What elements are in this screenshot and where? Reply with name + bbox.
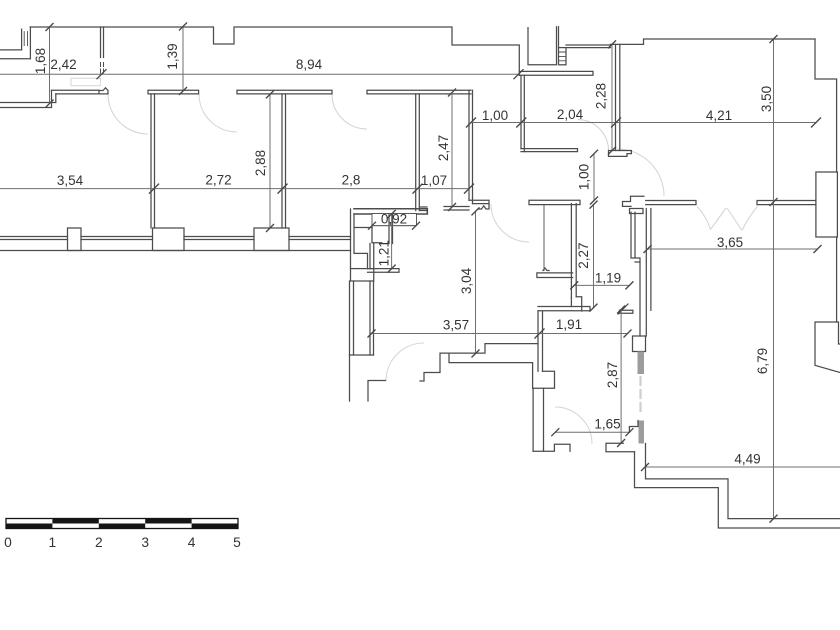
dim 4,49 line bbox=[645, 466, 840, 468]
dim 3,50 6,79 vertical bbox=[773, 39, 775, 519]
svg-text:1,91: 1,91 bbox=[556, 317, 582, 332]
svg-text:0: 0 bbox=[4, 535, 12, 550]
wall right outer top bbox=[815, 39, 837, 172]
svg-text:4,21: 4,21 bbox=[706, 108, 732, 123]
wall hall east inner face bbox=[631, 212, 640, 336]
wall corridor west top bbox=[351, 209, 373, 269]
ticks 2,27 bbox=[590, 201, 598, 312]
ticks 1,19 bbox=[570, 281, 633, 289]
wall right angled corner bbox=[815, 322, 840, 373]
wall partition room1-room2 bbox=[151, 94, 155, 228]
wall bottom notch bbox=[533, 444, 570, 451]
dim 0,92 line bbox=[372, 225, 416, 227]
wall niche right pair bbox=[389, 214, 393, 244]
dim 1,65 line bbox=[555, 431, 629, 433]
svg-text:1,21: 1,21 bbox=[377, 240, 392, 266]
cap bump glass partition bbox=[543, 268, 549, 271]
wall corridor bottom faces bbox=[350, 355, 386, 401]
svg-text:6,79: 6,79 bbox=[755, 348, 770, 374]
dim 2,87 vertical bbox=[620, 310, 622, 444]
svg-text:3: 3 bbox=[141, 535, 149, 550]
double door arc left bbox=[697, 207, 711, 230]
dim 2,28 vertical bbox=[611, 44, 613, 150]
wall partition band A with hinge bump bbox=[52, 90, 100, 94]
svg-text:3,54: 3,54 bbox=[57, 173, 84, 188]
door arc east big bbox=[617, 149, 664, 196]
door leaf dashes top-left bbox=[101, 63, 104, 74]
svg-text:5: 5 bbox=[233, 535, 241, 550]
tick 1,68 ends bbox=[46, 23, 54, 108]
window glazing bottom run4 bbox=[289, 237, 351, 240]
ticks 0,92 bbox=[368, 222, 420, 230]
scale bar bottom row black segments bbox=[6, 524, 52, 529]
door leaf rect top-left bbox=[71, 78, 101, 85]
door arc bottom opening bbox=[555, 407, 592, 444]
window glazing bottom run1 bbox=[0, 237, 68, 240]
wall top band right of shaft bbox=[566, 45, 611, 48]
dim chain line y74 bbox=[0, 73, 519, 75]
dim chain line y333 bbox=[372, 333, 628, 335]
svg-text:2,88: 2,88 bbox=[253, 150, 268, 176]
dim 1,19 line bbox=[574, 284, 629, 286]
ticks 1,21 bbox=[388, 210, 396, 273]
svg-text:4,49: 4,49 bbox=[734, 452, 760, 467]
dim 1,00 vertical small bbox=[593, 154, 595, 201]
ticks 3,04 bbox=[472, 207, 480, 357]
svg-text:2,87: 2,87 bbox=[605, 362, 620, 388]
wall corridor east upper bbox=[370, 244, 374, 269]
wall band under niche bbox=[368, 269, 400, 273]
dim 2,27 vertical bbox=[593, 205, 595, 308]
wall bottom left of stair bbox=[606, 443, 635, 451]
wall cap near 2,87 top bbox=[620, 310, 633, 313]
window east bbox=[816, 172, 838, 237]
scale bar top row black segments bbox=[52, 519, 98, 524]
svg-text:3,04: 3,04 bbox=[459, 267, 474, 294]
window glazing bottom run2 bbox=[81, 237, 153, 240]
ticks chain y122 bbox=[466, 118, 821, 128]
door jamb gray upper bbox=[638, 352, 645, 375]
svg-text:1,65: 1,65 bbox=[594, 417, 620, 432]
svg-text:0,92: 0,92 bbox=[381, 212, 407, 227]
ticks chain y333 bbox=[368, 329, 632, 339]
tick 1,39 ends bbox=[179, 23, 187, 96]
double door leaf right bbox=[727, 208, 742, 231]
svg-text:1,19: 1,19 bbox=[595, 271, 621, 286]
svg-text:4: 4 bbox=[188, 535, 196, 550]
door leaf light bbox=[639, 377, 641, 415]
label box 0,92 bbox=[372, 214, 417, 226]
wall partition room4 right bbox=[469, 90, 473, 203]
svg-text:2,47: 2,47 bbox=[436, 135, 451, 161]
wall stub left of vestibule door bbox=[420, 207, 427, 211]
tick 2,42/8,94 chain bbox=[97, 69, 524, 79]
pillar 3 bbox=[254, 228, 289, 251]
wall room5 bottom band bbox=[521, 149, 578, 152]
wall room5 west pair bbox=[521, 75, 524, 151]
wall staircase upper outline bbox=[420, 344, 538, 381]
window top-left bbox=[24, 32, 27, 46]
pillar 1 bbox=[68, 228, 82, 251]
door arc partition C bbox=[332, 94, 367, 129]
ticks 2,88 bbox=[266, 90, 274, 232]
ticks 2,28 bbox=[608, 40, 616, 154]
wall top-left corner bbox=[22, 27, 31, 59]
ticks chain y188 bbox=[149, 184, 474, 194]
svg-text:2,72: 2,72 bbox=[205, 173, 231, 188]
svg-text:2,28: 2,28 bbox=[594, 83, 609, 109]
wall hall east pair bbox=[645, 209, 647, 337]
wall hall NE corner jamb cluster bbox=[623, 196, 645, 206]
svg-text:1,00: 1,00 bbox=[577, 164, 592, 190]
wall door box step bbox=[633, 336, 646, 352]
dim chain line y188 bbox=[0, 188, 469, 190]
svg-text:1: 1 bbox=[49, 535, 57, 550]
wall step near 1,65 bbox=[629, 421, 638, 433]
wall niche left bbox=[372, 226, 382, 243]
door arc partition B bbox=[199, 94, 237, 132]
svg-text:3,50: 3,50 bbox=[759, 86, 774, 112]
wall hall bottom band bbox=[538, 307, 590, 311]
wall hall east main pair bbox=[571, 204, 576, 298]
door arc vestibule into hall bbox=[491, 204, 529, 242]
double door leaf left bbox=[711, 208, 727, 230]
wall inner stair line bbox=[449, 354, 533, 388]
wall partition band C bbox=[237, 90, 332, 94]
dim 2,88 vertical bbox=[269, 94, 271, 228]
dim 3,65 line bbox=[648, 248, 818, 250]
wall door jamb top-left pair bbox=[101, 27, 104, 58]
wall east band left of double door bbox=[646, 201, 696, 205]
ticks 1,00 small bbox=[590, 150, 598, 205]
svg-text:2,8: 2,8 bbox=[342, 173, 361, 188]
svg-text:2,04: 2,04 bbox=[557, 107, 584, 122]
wall staircase inner bbox=[635, 452, 840, 528]
door arc room1 top-left partition bbox=[108, 94, 148, 134]
wall top right run bbox=[611, 39, 816, 44]
ticks 3,50/6,79 bbox=[770, 35, 778, 523]
scale bar outline bbox=[6, 519, 238, 529]
wall hall inner top band bbox=[529, 200, 580, 204]
wall corridor west pair lower bbox=[350, 281, 354, 355]
dim 2,47 vertical bbox=[451, 93, 453, 208]
ticks 2,87 bbox=[617, 306, 625, 448]
dim 1,39 vertical bbox=[182, 27, 184, 92]
wall right outer below window bbox=[836, 237, 838, 322]
dim 1,21 vertical bbox=[391, 214, 393, 269]
wall stub right bbox=[444, 207, 469, 211]
svg-text:3,65: 3,65 bbox=[717, 235, 743, 250]
dim 3,04 vertical bbox=[475, 211, 477, 353]
svg-text:1,00: 1,00 bbox=[482, 108, 508, 123]
wall room5 east pair bbox=[616, 44, 620, 150]
wall partition room3-room4 bbox=[416, 94, 420, 211]
door jamb gray lower bbox=[639, 421, 645, 444]
wall hall top band bbox=[519, 71, 593, 75]
wall T-foot bbox=[609, 151, 632, 157]
wall 0,92 thick band bbox=[354, 209, 427, 214]
dim chain line y122 bbox=[471, 122, 816, 124]
svg-text:1,39: 1,39 bbox=[165, 43, 180, 69]
wall bottom sill line bbox=[0, 250, 351, 252]
wall partition room2-room3 bbox=[282, 94, 286, 228]
svg-text:2,27: 2,27 bbox=[576, 242, 591, 268]
ticks 2,47 bbox=[448, 89, 456, 212]
wall corridor east pair lower bbox=[370, 281, 374, 355]
svg-text:3,57: 3,57 bbox=[443, 318, 469, 333]
door arc staircase corridor bbox=[386, 343, 424, 381]
ticks 3,65 bbox=[644, 245, 822, 253]
wall vestibule door cap with bump bbox=[469, 200, 489, 203]
wall hall stub band bbox=[537, 273, 573, 278]
wall thin glass partition bbox=[543, 205, 545, 271]
wall room east west pair bbox=[650, 209, 652, 311]
tick 4,49 left bbox=[641, 463, 649, 471]
wall top exterior bbox=[30, 27, 519, 75]
svg-text:1,07: 1,07 bbox=[421, 173, 447, 188]
svg-text:8,94: 8,94 bbox=[296, 57, 323, 72]
window glazing bottom run3 bbox=[184, 237, 254, 240]
wall staircase outer bbox=[646, 444, 840, 519]
dim 1,68 vertical bbox=[49, 27, 51, 104]
wall partition band D bbox=[367, 90, 471, 94]
wall partition band B bbox=[148, 90, 199, 94]
door tick at cap bbox=[618, 304, 628, 314]
wall jog right at bottom bbox=[533, 371, 555, 388]
door arc room5 bbox=[578, 120, 609, 151]
double door arc right bbox=[742, 207, 758, 231]
svg-text:1,68: 1,68 bbox=[33, 48, 48, 74]
wall west pair below bbox=[533, 388, 543, 451]
wall hall east jog bbox=[571, 297, 581, 311]
wall east band right of double door bbox=[757, 201, 815, 205]
ticks 1,65 bbox=[551, 428, 633, 436]
svg-text:2: 2 bbox=[95, 535, 103, 550]
pillar corridor bbox=[351, 269, 374, 281]
wall corridor bottom cap bbox=[350, 354, 374, 356]
pillar 2 bbox=[153, 228, 185, 251]
wall hall west lower pair bbox=[538, 311, 543, 371]
svg-text:2,42: 2,42 bbox=[50, 57, 76, 72]
shaft top bbox=[528, 27, 559, 65]
wall left step down bbox=[0, 90, 56, 107]
